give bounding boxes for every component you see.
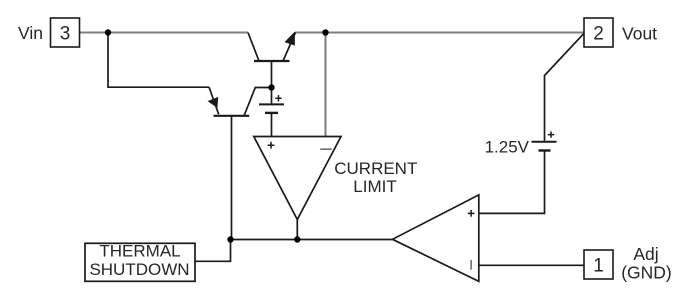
wire top rail left (pin3 to Q1 collector)	[80, 32, 248, 34]
B1 plus polarity mark	[548, 131, 554, 137]
svg-text:Vin: Vin	[18, 23, 43, 43]
transistor Q2 (PNP driver)	[209, 87, 272, 240]
svg-text:THERMAL: THERMAL	[99, 242, 180, 261]
svg-text:CURRENT: CURRENT	[334, 159, 417, 178]
wire Q2 emitter feed	[108, 33, 209, 88]
junction dot rail-left	[105, 29, 111, 35]
pin 1 box	[584, 250, 613, 279]
thermal shutdown block	[85, 242, 195, 282]
wire U2 plus input to reference	[479, 151, 545, 213]
wire bottom bus	[231, 239, 393, 241]
U2 plus input marker	[468, 210, 475, 217]
svg-text:(GND): (GND)	[621, 262, 672, 282]
U1 plus input marker	[268, 142, 275, 149]
transistor Q1 (NPN pass)	[248, 33, 296, 88]
current source B2	[259, 88, 284, 137]
junction dot Q1 base	[268, 84, 274, 90]
wire top rail right (Q1 emitter to pin2)	[295, 32, 584, 34]
svg-text:1.25V: 1.25V	[485, 138, 530, 157]
pin 3 box	[51, 18, 80, 47]
wire thermal shutdown to bus	[195, 240, 231, 262]
junction dot bus-left	[227, 236, 233, 242]
svg-text:2: 2	[593, 23, 604, 44]
U2 minus input marker	[470, 260, 472, 270]
wire U1 output	[296, 220, 298, 240]
pin 2 box	[584, 18, 613, 47]
junction dot bus-mid	[294, 236, 300, 242]
svg-text:3: 3	[60, 23, 71, 44]
B2 plus polarity mark	[275, 95, 281, 101]
wire U2 minus input to pin1	[479, 264, 584, 266]
junction dot rail-right	[322, 29, 328, 35]
svg-text:Adj: Adj	[633, 244, 658, 264]
svg-text:1: 1	[593, 255, 604, 276]
op-amp U1 current limit comparator	[254, 137, 341, 220]
wire pin2 to reference top	[545, 33, 585, 141]
svg-text:Vout: Vout	[622, 23, 657, 43]
svg-text:SHUTDOWN: SHUTDOWN	[89, 260, 189, 279]
battery B1 1.25V reference	[532, 131, 557, 150]
svg-text:LIMIT: LIMIT	[353, 177, 396, 196]
U1 minus input marker	[320, 148, 332, 150]
wire vertical to current-limit minus input	[325, 33, 327, 137]
op-amp U2 error amplifier	[393, 195, 479, 282]
